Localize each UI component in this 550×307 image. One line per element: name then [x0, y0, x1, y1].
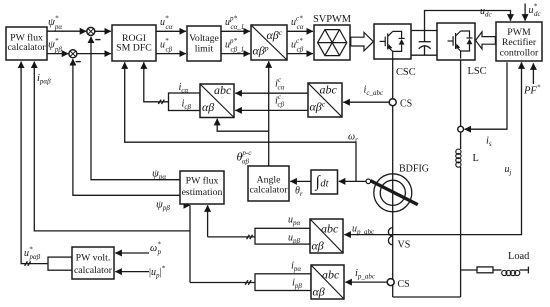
wire psi_pa feedback horizontal	[91, 37, 180, 180]
svg-text:ωr: ωr	[348, 132, 358, 145]
svg-text:PW volt.: PW volt.	[76, 252, 111, 263]
block ROGI SM DFC	[112, 25, 156, 61]
wire theta to alphabeta transform	[268, 61, 270, 166]
transistor Q2 IGBT in LSC	[448, 31, 473, 59]
block LSC converter	[437, 23, 475, 60]
wire u_p_abc from VS to abc box	[344, 234, 392, 236]
svg-text:abc: abc	[321, 222, 339, 236]
wire stator phase line	[392, 59, 394, 297]
svg-text:ic_abc: ic_abc	[364, 85, 385, 98]
svg-text:ipαβ: ipαβ	[37, 73, 51, 86]
block abc-alphabeta left	[200, 84, 234, 118]
node encoder	[366, 179, 371, 184]
svg-text:ψ*pβ: ψ*pβ	[48, 37, 62, 54]
wire u*_dc input	[524, 4, 526, 21]
svg-text:PF*: PF*	[523, 84, 541, 97]
sensor CS converter current	[389, 99, 396, 106]
svg-text:ψpβ: ψpβ	[156, 199, 170, 213]
wire ucp*b_1 Voltage limit to transform	[221, 53, 250, 55]
break mark i_c bundle	[158, 100, 164, 104]
svg-text:limit: limit	[195, 43, 214, 54]
svg-text:L: L	[473, 153, 479, 164]
svg-text:abc: abc	[322, 268, 340, 282]
wire resistor to inductor	[493, 269, 502, 271]
wire u_j VS to PWM rectifier controller	[393, 62, 522, 234]
wire u_p riser to PW flux estimation	[207, 205, 209, 237]
wire ic_cb transform to abc box	[235, 109, 308, 111]
block arrow SVPWM to CSC	[351, 32, 374, 50]
svg-text:upα: upα	[288, 215, 301, 228]
svg-text:iccβ: iccβ	[275, 93, 285, 109]
svg-text:calcalator: calcalator	[74, 265, 113, 276]
svg-text:iccα: iccα	[275, 76, 285, 92]
wire psi_pb feedback horizontal	[73, 59, 180, 195]
wire ucp*a_1 Voltage limit to transform	[221, 30, 250, 32]
svg-text:Load: Load	[508, 251, 530, 262]
svg-text:BDFIG: BDFIG	[399, 164, 429, 175]
resistor load R	[477, 267, 493, 273]
sensor grid current circle	[458, 126, 464, 132]
transistor Q1 IGBT in CSC	[380, 31, 405, 59]
wire u*ca ROGI to Voltage limit	[156, 30, 186, 32]
svg-text:VS: VS	[398, 240, 411, 251]
wire bottom bus	[393, 296, 461, 298]
svg-text:PWM: PWM	[507, 27, 531, 38]
inductor L grid filter	[456, 149, 461, 167]
wire uc*cb transform to SVPWM	[287, 53, 313, 55]
svg-text:θp-cαβ: θp-cαβ	[237, 149, 253, 166]
inductor load coil	[502, 270, 520, 275]
svg-text:u*cβ: u*cβ	[160, 37, 173, 54]
svg-text:abc: abc	[320, 83, 338, 97]
sensor CS stator current	[387, 279, 394, 286]
summing junction S1	[87, 27, 101, 39]
svg-text:abc: abc	[214, 83, 232, 97]
svg-text:icβ: icβ	[182, 99, 192, 112]
capacitor C dc-link	[419, 31, 431, 56]
svg-text:PW flux: PW flux	[186, 176, 219, 187]
svg-text:ipα: ipα	[291, 261, 301, 274]
block SVPWM	[314, 25, 350, 60]
svg-text:αβ: αβ	[202, 100, 214, 114]
block arrow PWM controller to LSC	[476, 32, 496, 49]
svg-text:ip_abc: ip_abc	[355, 268, 376, 281]
wire encoder to integrator	[339, 180, 366, 182]
wire omega*p input	[115, 252, 149, 254]
svg-text:|up|*: |up|*	[149, 265, 166, 280]
svg-text:θr: θr	[295, 186, 303, 199]
wire load tap	[461, 269, 477, 271]
wire i_p riser to PW flux estimation	[189, 205, 191, 282]
wire i_p long line to PW flux calculator	[34, 62, 190, 231]
summing junction S2	[69, 50, 81, 62]
block abc-alphabeta c right	[308, 83, 342, 117]
svg-text:is: is	[486, 136, 492, 149]
svg-text:uj: uj	[505, 164, 512, 177]
svg-text:icα: icα	[179, 82, 189, 95]
svg-text:LSC: LSC	[468, 66, 487, 77]
svg-text:CS: CS	[398, 279, 410, 290]
wire u*pab riser to PW flux calculator	[21, 62, 48, 264]
block PWM Rectifier controllor	[496, 22, 542, 61]
block Voltage limit	[187, 26, 221, 61]
svg-text:CS: CS	[400, 99, 412, 110]
wire u_p single from fan	[208, 236, 255, 238]
block abc-alphabeta u_p	[310, 219, 343, 253]
svg-text:upβ: upβ	[288, 233, 301, 246]
wire theta branch to abc box	[217, 119, 269, 131]
wire uc*ca transform to SVPWM	[287, 30, 313, 32]
wire |u_p|* input	[115, 271, 149, 273]
block abc-alphabeta i_p	[311, 265, 344, 299]
wire LSC grid line lower	[460, 167, 462, 297]
svg-text:up_abc: up_abc	[352, 224, 375, 237]
wire i_p_abc from CS to abc box	[345, 281, 387, 283]
SVPWM hexagon icon	[318, 30, 347, 56]
svg-text:uc*cα: uc*cα	[291, 15, 304, 32]
svg-text:SVPWM: SVPWM	[313, 14, 351, 25]
svg-text:estimation: estimation	[182, 187, 223, 198]
block PW flux estimation	[180, 171, 224, 204]
svg-text:u*cα: u*cα	[160, 15, 173, 32]
block Angle calculator	[248, 166, 289, 201]
svg-text:ω*p: ω*p	[150, 241, 162, 257]
sensor VS stator voltage	[388, 228, 392, 245]
machine BDFIG	[370, 174, 417, 212]
svg-text:up*cα_1: up*cα_1	[225, 15, 244, 32]
svg-text:ψ*pα: ψ*pα	[48, 15, 62, 32]
wire i_p single from fan	[190, 282, 255, 284]
block CSC converter	[374, 24, 411, 59]
svg-text:Rectifier: Rectifier	[502, 37, 537, 48]
wire sum2 to ROGI	[77, 53, 111, 55]
wire u*cb ROGI to Voltage limit	[156, 53, 186, 55]
wire i_c alphabeta to ROGI bottom	[144, 62, 169, 102]
block PW volt calculator	[72, 247, 114, 279]
svg-text:calcalator: calcalator	[7, 42, 46, 53]
wire omega_r to ROGI bottom	[125, 62, 356, 181]
svg-text:u*pαβ: u*pαβ	[24, 246, 41, 262]
node i_p bundle fan	[255, 274, 311, 291]
wire sum1 to ROGI	[95, 30, 111, 32]
wire ic_ca transform to abc box	[235, 92, 308, 94]
wire u_dc measurement	[425, 11, 511, 31]
wire i_c_abc from CS to abc box	[343, 101, 392, 103]
wire dc link bottom rail	[411, 54, 437, 56]
node i_c bundle fan	[169, 93, 201, 111]
wire PF* input	[532, 63, 534, 84]
svg-text:u*dc: u*dc	[529, 3, 542, 19]
svg-text:αβ: αβ	[313, 285, 325, 299]
wire LSC grid line upper	[460, 60, 462, 149]
svg-text:uc*cβ: uc*cβ	[291, 37, 304, 54]
node u*pab bundle fan	[48, 257, 72, 270]
block integrator	[311, 170, 338, 194]
wire psi*pa to sum1	[47, 30, 86, 32]
wire theta_r integrator to angle calculator	[290, 180, 311, 182]
wire i_s sensor to PWM controller	[465, 62, 508, 129]
svg-text:αβ: αβ	[312, 239, 324, 253]
node load terminal	[527, 267, 529, 274]
svg-text:ipβ: ipβ	[292, 278, 302, 291]
svg-text:SM DFC: SM DFC	[116, 43, 152, 54]
svg-text:controllor: controllor	[500, 48, 539, 59]
svg-text:up*cβ_1: up*cβ_1	[225, 37, 244, 54]
svg-text:udc: udc	[480, 6, 493, 19]
block alphabeta c/p transform	[251, 25, 287, 60]
break mark u_p bundle	[247, 235, 253, 239]
block PW flux calculator	[6, 27, 47, 60]
wire inductor to terminal	[520, 269, 529, 271]
svg-text:calcalator: calcalator	[249, 184, 288, 195]
wire psi*pb to sum2	[47, 53, 68, 55]
svg-text:Voltage: Voltage	[189, 33, 219, 44]
svg-text:ψpα: ψpα	[152, 168, 166, 182]
wire dc link top rail	[411, 30, 437, 32]
break mark i_p bundle	[245, 280, 251, 284]
svg-text:CSC: CSC	[396, 67, 416, 78]
node u_p bundle fan	[255, 228, 310, 244]
break mark u*pab bundle	[25, 261, 31, 265]
